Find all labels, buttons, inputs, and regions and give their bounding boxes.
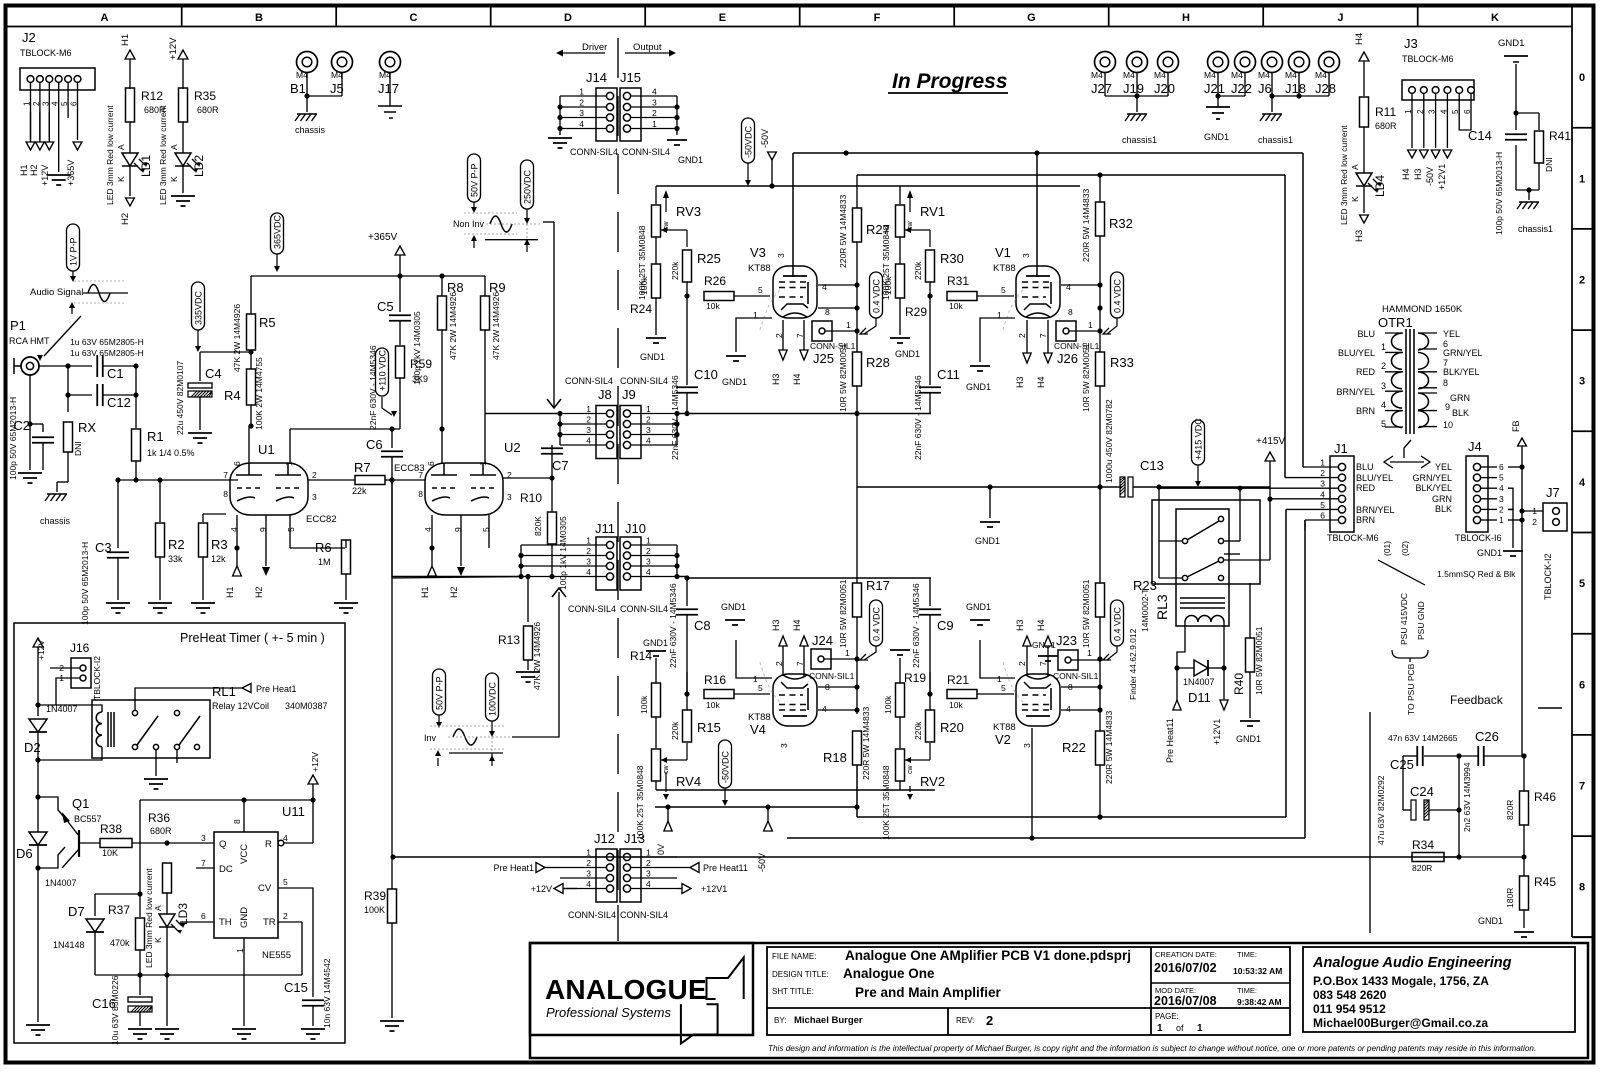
svg-text:1: 1 xyxy=(1320,458,1325,468)
connector P1 RCA xyxy=(9,318,50,375)
bolt J28 xyxy=(1315,52,1340,97)
svg-text:340M0387: 340M0387 xyxy=(285,701,328,711)
svg-text:KT88: KT88 xyxy=(748,712,771,723)
ground R13 xyxy=(516,672,540,682)
svg-text:A: A xyxy=(1350,164,1360,170)
svg-text:47n 63V 14M2665: 47n 63V 14M2665 xyxy=(1388,733,1458,743)
svg-text:47K 2W 14M4926: 47K 2W 14M4926 xyxy=(448,292,458,360)
bolt J20 xyxy=(1154,52,1179,97)
svg-text:365VDC: 365VDC xyxy=(273,214,283,249)
ground V1 pin1 GND1 xyxy=(966,366,991,392)
resistor R26 xyxy=(704,274,770,311)
svg-text:M4: M4 xyxy=(1231,70,1243,80)
chassis J6 group xyxy=(1258,114,1293,145)
svg-text:R6: R6 xyxy=(315,540,332,555)
resistor R45 xyxy=(1505,857,1556,928)
svg-text:R16: R16 xyxy=(704,673,726,687)
svg-text:100k: 100k xyxy=(883,695,893,714)
rv1 wiper xyxy=(905,227,930,233)
V4 pin1 wire xyxy=(736,640,772,678)
svg-text:V1: V1 xyxy=(995,245,1011,260)
connector J26 CONN-SIL1 xyxy=(1054,320,1103,366)
feedback node wires xyxy=(1456,753,1461,857)
svg-text:22nF 630V - 14M5346: 22nF 630V - 14M5346 xyxy=(368,345,378,430)
resistor R19 xyxy=(883,658,926,748)
svg-text:22nF 630V - 14M5346: 22nF 630V - 14M5346 xyxy=(668,583,678,668)
svg-text:BLK: BLK xyxy=(1452,408,1469,418)
svg-text:H1: H1 xyxy=(120,34,131,46)
svg-text:1: 1 xyxy=(1157,1023,1163,1034)
svg-text:R30: R30 xyxy=(940,251,964,266)
wire R10 bottom xyxy=(525,574,554,622)
preheat box xyxy=(14,623,345,1043)
in progress xyxy=(888,70,1008,93)
relay RL1 wires xyxy=(135,688,242,768)
net H1 arrow xyxy=(120,34,135,89)
svg-text:J: J xyxy=(1337,12,1343,24)
svg-text:of: of xyxy=(1176,1023,1184,1033)
rail y175 xyxy=(857,172,1285,477)
wire x140 top xyxy=(140,797,316,894)
connector J23 CONN-SIL1 xyxy=(1053,633,1103,681)
svg-text:GRN/YEL: GRN/YEL xyxy=(1443,348,1483,358)
svg-text:1: 1 xyxy=(646,536,651,546)
svg-text:10: 10 xyxy=(1443,420,1453,430)
bolt J5 xyxy=(330,52,353,97)
svg-text:R26: R26 xyxy=(704,274,726,288)
svg-text:Feedback: Feedback xyxy=(1450,693,1504,707)
svg-text:(01): (01) xyxy=(1382,541,1392,556)
svg-text:J16: J16 xyxy=(70,641,90,655)
resistor R36 xyxy=(148,811,172,914)
J8 J9 wires xyxy=(557,404,679,446)
svg-text:1: 1 xyxy=(586,404,591,414)
svg-text:2: 2 xyxy=(646,858,651,868)
ground LD3 xyxy=(155,975,179,1039)
svg-text:M4: M4 xyxy=(296,70,308,80)
resistor RX xyxy=(64,392,97,482)
svg-text:2: 2 xyxy=(1017,333,1027,338)
ground J2 pin4 xyxy=(47,175,71,185)
gnd1 mid xyxy=(975,487,1000,546)
svg-text:H3: H3 xyxy=(1015,619,1025,631)
svg-text:J12: J12 xyxy=(594,831,615,846)
J11 J10 wires xyxy=(518,536,679,580)
svg-text:7: 7 xyxy=(223,470,228,480)
svg-text:10R 5W 82M0051: 10R 5W 82M0051 xyxy=(838,579,848,648)
svg-text:OTR1: OTR1 xyxy=(1378,315,1413,330)
wire J1 pin6 down xyxy=(1304,520,1306,531)
svg-text:100k: 100k xyxy=(639,276,649,295)
ground C2 xyxy=(18,473,42,483)
connector J11 J10 xyxy=(568,521,668,614)
svg-text:This design and information is: This design and information is the intel… xyxy=(768,1044,1536,1053)
svg-text:CONN-SIL1: CONN-SIL1 xyxy=(1054,341,1100,351)
svg-text:REV:: REV: xyxy=(956,1016,974,1025)
ground J15 GND1 xyxy=(667,140,703,165)
V3 heater H3 xyxy=(771,320,787,385)
V3 pin8 wire xyxy=(818,307,857,309)
capacitor C4 xyxy=(175,352,251,435)
connector J3 TBLOCK-M6 xyxy=(1402,36,1474,100)
svg-text:BLU/YEL: BLU/YEL xyxy=(1338,348,1375,358)
svg-text:1V P-P: 1V P-P xyxy=(69,237,79,266)
svg-text:U11: U11 xyxy=(282,804,305,819)
bolt J17 xyxy=(378,52,402,119)
svg-text:0.4 VDC: 0.4 VDC xyxy=(872,606,882,641)
ground C3 xyxy=(106,603,130,613)
svg-text:SHT TITLE:: SHT TITLE: xyxy=(772,987,814,996)
svg-text:J24: J24 xyxy=(812,633,833,648)
gnd1 C8 area xyxy=(721,602,746,625)
svg-text:Pre Heat11: Pre Heat11 xyxy=(703,863,748,873)
svg-text:B: B xyxy=(255,12,263,24)
svg-text:J23: J23 xyxy=(1056,633,1077,648)
capacitor C14 xyxy=(1468,128,1527,235)
svg-text:cw: cw xyxy=(907,765,914,775)
capacitor C11 xyxy=(913,320,960,460)
svg-text:5: 5 xyxy=(1499,473,1504,483)
svg-text:LD1: LD1 xyxy=(139,155,153,177)
wire V3 plate xyxy=(792,153,794,277)
svg-text:CREATION DATE:: CREATION DATE: xyxy=(1155,950,1217,959)
svg-text:J18: J18 xyxy=(1285,81,1306,96)
svg-text:4: 4 xyxy=(1439,109,1448,114)
svg-text:chassis1: chassis1 xyxy=(1122,135,1157,145)
svg-text:RV4: RV4 xyxy=(676,774,701,789)
bolt J22 xyxy=(1231,52,1256,97)
svg-text:22nF 630V - 14M5346: 22nF 630V - 14M5346 xyxy=(911,583,921,668)
svg-text:F: F xyxy=(874,12,881,24)
svg-text:1: 1 xyxy=(284,461,294,466)
svg-text:R29: R29 xyxy=(905,305,927,319)
svg-text:RED: RED xyxy=(1356,367,1376,377)
svg-text:14M0002-T: 14M0002-T xyxy=(1140,589,1150,632)
svg-text:-50V: -50V xyxy=(1425,167,1435,186)
svg-text:PreHeat Timer ( +- 5 min ): PreHeat Timer ( +- 5 min ) xyxy=(180,631,325,645)
resistor R18 xyxy=(823,659,871,780)
svg-text:10K: 10K xyxy=(102,848,118,858)
rv4 down arrow xyxy=(663,786,669,800)
resistor R22 xyxy=(1062,659,1114,820)
svg-text:3: 3 xyxy=(1022,743,1032,748)
svg-text:6: 6 xyxy=(1463,109,1472,114)
svg-text:J22: J22 xyxy=(1231,81,1252,96)
svg-text:C15: C15 xyxy=(284,980,308,995)
svg-text:12k: 12k xyxy=(211,554,226,564)
svg-text:1: 1 xyxy=(1197,1023,1203,1034)
J14 J15 wires xyxy=(557,87,679,136)
svg-text:220k: 220k xyxy=(670,721,680,740)
feedback label xyxy=(1450,693,1562,708)
svg-text:4: 4 xyxy=(652,87,657,97)
resistor R7 xyxy=(308,460,395,496)
svg-text:22u 450V 82M0107: 22u 450V 82M0107 xyxy=(175,361,185,435)
wire J12 divider stub xyxy=(617,905,619,941)
svg-text:5: 5 xyxy=(1381,419,1386,429)
svg-text:10:53:32 AM: 10:53:32 AM xyxy=(1233,966,1282,976)
wire TH xyxy=(0,0,1,1)
svg-text:5: 5 xyxy=(1320,500,1325,510)
svg-text:R40: R40 xyxy=(1232,673,1246,695)
diode D2 xyxy=(24,704,78,763)
svg-text:R41: R41 xyxy=(1549,129,1571,143)
svg-text:J14: J14 xyxy=(586,70,607,85)
preheat1 flag xyxy=(242,684,297,695)
svg-text:Analogue One AMplifier PCB V1: Analogue One AMplifier PCB V1 done.pdspr… xyxy=(845,948,1131,963)
capacitor C8 xyxy=(668,578,711,694)
svg-text:R19: R19 xyxy=(904,671,926,685)
resistor R17 xyxy=(838,487,890,659)
svg-text:LED 3mm Red low current: LED 3mm Red low current xyxy=(105,105,115,205)
svg-text:chassis1: chassis1 xyxy=(1518,224,1553,234)
svg-text:8: 8 xyxy=(1443,378,1448,388)
svg-text:335VDC: 335VDC xyxy=(194,290,204,325)
heater H1 arrow U1 xyxy=(225,556,241,598)
svg-text:chassis: chassis xyxy=(295,125,326,135)
svg-text:PAGE:: PAGE: xyxy=(1155,1012,1179,1021)
net -50V arrow bottom xyxy=(757,807,772,872)
svg-text:4: 4 xyxy=(579,119,584,129)
svg-text:1M: 1M xyxy=(318,557,331,567)
gnd1 top right xyxy=(1498,38,1528,62)
svg-text:H1: H1 xyxy=(19,164,29,176)
svg-text:180R: 180R xyxy=(1505,888,1515,908)
svg-text:BLU: BLU xyxy=(1356,462,1374,472)
J3 pin wires xyxy=(1401,93,1472,190)
net 335VDC pill xyxy=(192,282,205,352)
svg-text:3: 3 xyxy=(646,869,651,879)
svg-text:BC557: BC557 xyxy=(74,814,102,824)
svg-text:R37: R37 xyxy=(108,903,130,917)
svg-text:R36: R36 xyxy=(148,811,170,825)
svg-text:6: 6 xyxy=(70,101,79,106)
svg-text:8: 8 xyxy=(232,819,242,824)
svg-text:1: 1 xyxy=(478,461,488,466)
chassis input xyxy=(40,482,71,526)
svg-text:P.O.Box 1433 Mogale, 1756, ZA: P.O.Box 1433 Mogale, 1756, ZA xyxy=(1313,974,1489,988)
connector J12 J13 xyxy=(568,831,668,920)
J1 left wires xyxy=(1159,467,1305,509)
svg-text:1: 1 xyxy=(646,848,651,858)
svg-text:10k: 10k xyxy=(949,301,963,311)
svg-text:2: 2 xyxy=(1416,109,1425,114)
ground D2 D6 chain xyxy=(26,868,50,1035)
svg-text:8: 8 xyxy=(223,489,228,499)
svg-text:0V: 0V xyxy=(656,844,666,855)
ground R24 GND1 xyxy=(640,338,666,362)
svg-text:H3: H3 xyxy=(1413,168,1423,180)
svg-text:0: 0 xyxy=(1579,72,1585,84)
company text xyxy=(1312,955,1512,1030)
svg-text:LED 3mm Red low current: LED 3mm Red low current xyxy=(144,868,154,968)
tube U1 ECC82 xyxy=(223,442,336,532)
svg-text:3: 3 xyxy=(1021,253,1031,258)
V3 heater H4 xyxy=(792,320,808,385)
resistor R35 xyxy=(158,88,219,205)
wire D2 to Q1 xyxy=(35,760,40,871)
svg-text:Driver: Driver xyxy=(582,42,607,53)
transformer OTR1 labels xyxy=(1378,304,1463,330)
svg-text:J1: J1 xyxy=(1334,441,1348,456)
net +12V arrow xyxy=(168,37,188,89)
wire x393 xyxy=(391,480,393,889)
svg-text:50V P-P: 50V P-P xyxy=(470,163,480,197)
net +12V preheat xyxy=(33,638,46,708)
svg-text:J7: J7 xyxy=(1546,485,1560,500)
resistor R4 xyxy=(224,357,264,430)
svg-text:33k: 33k xyxy=(168,554,183,564)
svg-text:Finder 44.62.9.012: Finder 44.62.9.012 xyxy=(1128,628,1138,700)
svg-text:820R: 820R xyxy=(1505,800,1515,820)
signal wire to U1 xyxy=(118,477,238,482)
svg-text:R5: R5 xyxy=(259,315,276,330)
svg-text:FB: FB xyxy=(1511,420,1521,432)
input selector arrow xyxy=(37,316,81,361)
svg-text:6: 6 xyxy=(232,461,242,466)
J4 right wires xyxy=(1508,464,1525,548)
svg-text:+365V: +365V xyxy=(368,232,398,243)
relay RL3 contacts xyxy=(1182,516,1240,580)
ground U11 GND xyxy=(232,1029,256,1039)
svg-text:GND1: GND1 xyxy=(678,155,703,165)
V1 heater H4 xyxy=(1036,320,1052,388)
capacitor C1 xyxy=(38,337,144,381)
svg-text:V2: V2 xyxy=(995,732,1011,747)
svg-text:P1: P1 xyxy=(10,318,26,333)
svg-text:5: 5 xyxy=(286,527,296,532)
wires B1 J5 xyxy=(304,73,342,112)
svg-text:R1: R1 xyxy=(147,429,164,444)
svg-text:TIME:: TIME: xyxy=(1237,986,1257,995)
svg-text:4: 4 xyxy=(51,101,60,106)
svg-text:220R 5W 14M4833: 220R 5W 14M4833 xyxy=(1081,188,1091,262)
svg-text:1.5mmSQ Red & Blk: 1.5mmSQ Red & Blk xyxy=(1437,569,1516,579)
rail y838 xyxy=(787,520,1305,841)
svg-text:+110 VDC: +110 VDC xyxy=(378,349,388,391)
svg-text:H1: H1 xyxy=(420,586,430,598)
ic U11 NE555 xyxy=(201,804,305,961)
svg-text:+12V: +12V xyxy=(310,752,320,772)
svg-text:Professional Systems: Professional Systems xyxy=(546,1005,671,1020)
wire V4 pin8 xyxy=(818,684,860,689)
svg-text:C9: C9 xyxy=(937,618,954,633)
svg-text:100p 1kV 14M0305: 100p 1kV 14M0305 xyxy=(558,516,568,590)
connector J1 xyxy=(1327,441,1379,543)
svg-text:+12V: +12V xyxy=(168,37,179,60)
svg-text:0.4 VDC: 0.4 VDC xyxy=(1113,606,1123,641)
svg-text:C14: C14 xyxy=(1468,128,1492,143)
svg-text:2: 2 xyxy=(586,858,591,868)
svg-text:H4: H4 xyxy=(792,373,802,385)
svg-text:J9: J9 xyxy=(622,387,636,402)
gnd1 R19 xyxy=(890,650,910,655)
connector J25 CONN-SIL1 xyxy=(810,320,860,366)
svg-text:J11: J11 xyxy=(595,521,615,536)
svg-text:TBLOCK-M6: TBLOCK-M6 xyxy=(20,48,72,58)
svg-text:3: 3 xyxy=(1320,479,1325,489)
net +12V U11 xyxy=(308,752,320,800)
svg-text:R: R xyxy=(265,839,272,850)
V4 pin4 wire xyxy=(818,709,857,711)
svg-text:8: 8 xyxy=(1579,882,1585,894)
svg-text:4: 4 xyxy=(822,282,827,292)
relay RL1 contacts xyxy=(132,710,200,749)
svg-text:2: 2 xyxy=(1017,661,1027,666)
svg-text:1: 1 xyxy=(1381,342,1386,352)
svg-text:J28: J28 xyxy=(1315,81,1336,96)
tube U2 ECC83 xyxy=(394,440,521,532)
ground J21 GND1 xyxy=(1204,103,1230,142)
tube V3 KT88 xyxy=(748,245,830,338)
V4 pin8 wire xyxy=(818,686,857,688)
svg-text:1u 63V 65M2805-H: 1u 63V 65M2805-H xyxy=(70,348,144,358)
svg-text:RV3: RV3 xyxy=(676,204,701,219)
svg-text:3: 3 xyxy=(646,557,651,567)
svg-text:R39: R39 xyxy=(364,889,386,903)
capacitor C16 xyxy=(92,975,152,1045)
ground R29 GND1 xyxy=(890,338,920,359)
transformer OTR1 core xyxy=(1406,329,1414,434)
svg-text:DESIGN TITLE:: DESIGN TITLE: xyxy=(772,970,829,979)
svg-text:A: A xyxy=(100,12,108,24)
capacitor C15 xyxy=(284,958,332,1028)
svg-text:V4: V4 xyxy=(750,722,766,737)
V1 heater H3 xyxy=(1015,320,1031,388)
svg-text:RV1: RV1 xyxy=(920,204,945,219)
svg-text:J4: J4 xyxy=(1468,439,1482,454)
ground C16 xyxy=(128,1029,152,1039)
svg-text:5: 5 xyxy=(1579,578,1585,590)
resistor R30 xyxy=(913,230,964,320)
svg-text:BRN: BRN xyxy=(1356,406,1375,416)
svg-text:4: 4 xyxy=(1381,400,1386,410)
V2 pin4 wire xyxy=(1061,707,1103,712)
led LD2 xyxy=(169,122,206,206)
svg-text:1k 1/4 0.5%: 1k 1/4 0.5% xyxy=(147,448,195,458)
svg-text:2: 2 xyxy=(312,470,317,480)
svg-text:NE555: NE555 xyxy=(262,950,291,961)
net 0.4VDC pill V3 xyxy=(860,272,883,334)
svg-text:100K 25T 35M0848: 100K 25T 35M0848 xyxy=(881,765,891,840)
svg-text:K: K xyxy=(153,937,163,943)
svg-text:3: 3 xyxy=(312,492,317,502)
svg-text:M4: M4 xyxy=(1315,70,1327,80)
svg-text:RL3: RL3 xyxy=(1154,594,1170,620)
svg-text:2: 2 xyxy=(1579,275,1585,287)
svg-text:R32: R32 xyxy=(1109,216,1133,231)
svg-text:4: 4 xyxy=(586,436,591,446)
rail y790 xyxy=(656,789,935,791)
svg-text:H2: H2 xyxy=(254,586,264,598)
svg-text:GND1: GND1 xyxy=(975,536,1000,546)
svg-text:D7: D7 xyxy=(68,904,85,919)
svg-text:RL1: RL1 xyxy=(212,684,236,699)
svg-text:220k: 220k xyxy=(670,261,680,280)
svg-text:2: 2 xyxy=(646,546,651,556)
svg-text:Analogue One: Analogue One xyxy=(843,966,935,981)
svg-text:CONN-SIL1: CONN-SIL1 xyxy=(1053,671,1099,681)
gnd1 R14 xyxy=(643,638,668,656)
bolt J18 xyxy=(1285,52,1310,97)
+12V1 arrow xyxy=(1212,668,1228,745)
chassis C14 xyxy=(1517,202,1553,234)
resistor R20 xyxy=(913,672,964,760)
svg-text:GND1: GND1 xyxy=(640,352,665,362)
net 0.4VDC pill V4 xyxy=(860,600,883,660)
svg-text:5: 5 xyxy=(758,285,763,295)
J7 wires xyxy=(0,0,1,1)
